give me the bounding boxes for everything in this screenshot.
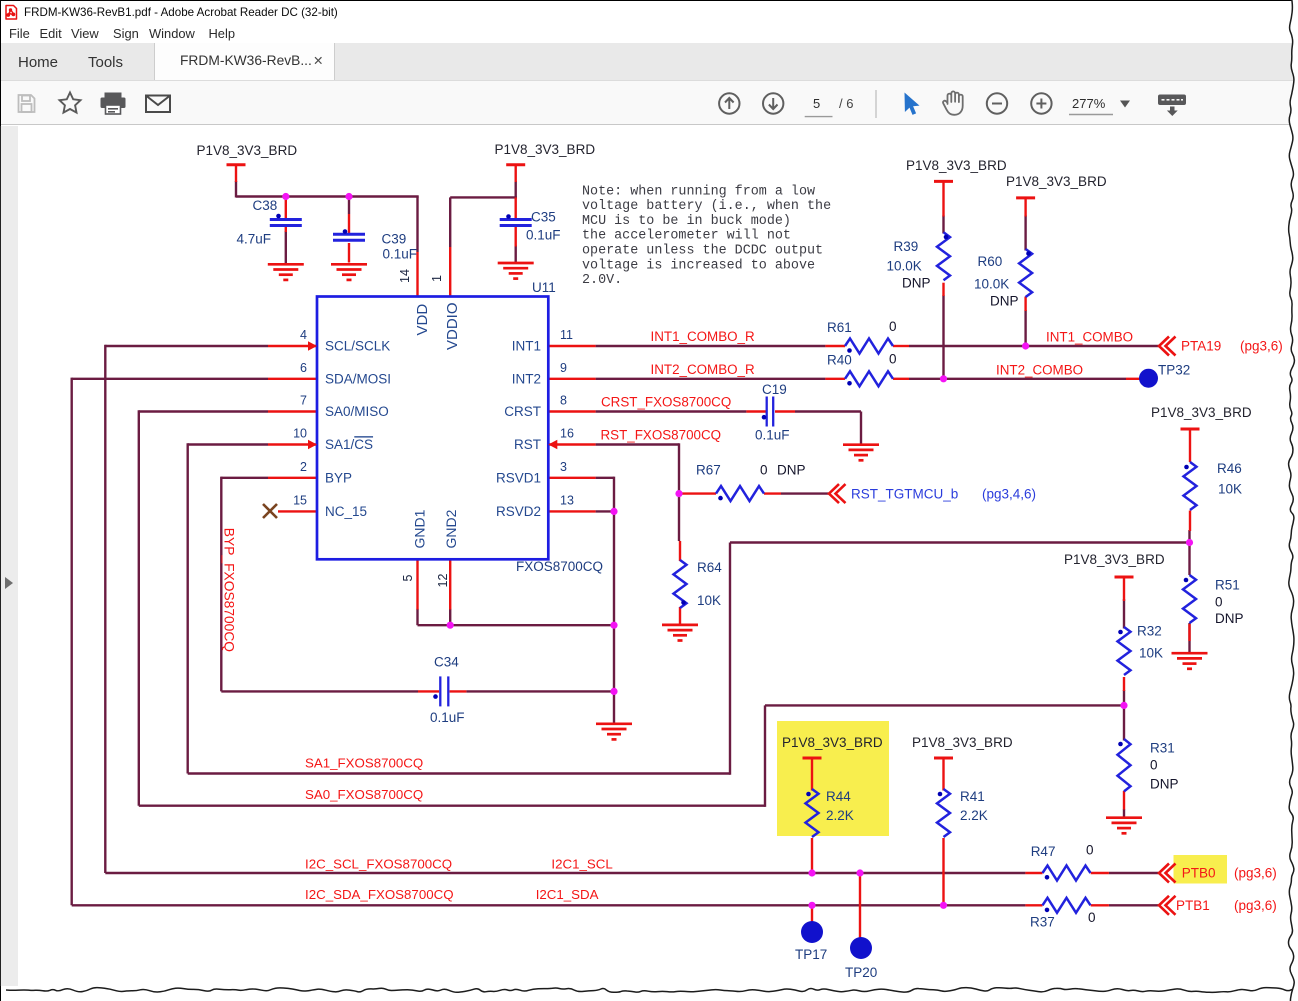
svg-text:2.2K: 2.2K (960, 808, 988, 823)
svg-text:1: 1 (430, 275, 444, 282)
svg-text:R39: R39 (894, 239, 919, 254)
svg-text:DNP: DNP (1215, 611, 1244, 626)
svg-text:0: 0 (1086, 843, 1094, 858)
svg-text:R60: R60 (978, 254, 1003, 269)
svg-text:0: 0 (889, 319, 897, 334)
svg-text:4: 4 (300, 328, 307, 342)
svg-text:P1V8_3V3_BRD: P1V8_3V3_BRD (782, 735, 883, 750)
svg-text:SA1/CS: SA1/CS (325, 437, 373, 452)
svg-text:8: 8 (560, 394, 567, 408)
svg-text:RSVD1: RSVD1 (496, 471, 541, 486)
svg-text:FXOS8700CQ: FXOS8700CQ (516, 559, 603, 574)
svg-text:BYP_FXOS8700CQ: BYP_FXOS8700CQ (222, 528, 237, 653)
svg-text:DNP: DNP (1150, 777, 1179, 792)
svg-text:C38: C38 (253, 198, 278, 213)
svg-text:INT2: INT2 (512, 372, 541, 387)
svg-text:2.0V.: 2.0V. (582, 273, 622, 288)
svg-text:0.1uF: 0.1uF (430, 710, 465, 725)
svg-text:R40: R40 (827, 353, 852, 368)
svg-text:R47: R47 (1031, 844, 1056, 859)
svg-text:TP20: TP20 (845, 965, 877, 980)
svg-text:CRST_FXOS8700CQ: CRST_FXOS8700CQ (601, 395, 731, 410)
svg-text:7: 7 (300, 394, 307, 408)
svg-text:14: 14 (398, 269, 412, 283)
svg-text:RST: RST (514, 437, 541, 452)
svg-text:P1V8_3V3_BRD: P1V8_3V3_BRD (1151, 405, 1252, 420)
svg-text:0.1uF: 0.1uF (526, 228, 561, 243)
svg-text:P1V8_3V3_BRD: P1V8_3V3_BRD (1006, 174, 1107, 189)
svg-text:SA1_FXOS8700CQ: SA1_FXOS8700CQ (305, 755, 423, 770)
svg-text:SA0/MISO: SA0/MISO (325, 404, 389, 419)
svg-text:15: 15 (293, 493, 307, 507)
svg-text:10K: 10K (1139, 646, 1163, 661)
svg-text:C34: C34 (434, 655, 459, 670)
svg-text:INT2_COMBO_R: INT2_COMBO_R (651, 362, 755, 377)
svg-text:C35: C35 (531, 210, 556, 225)
svg-text:2: 2 (300, 460, 307, 474)
svg-text:Note: when running from a low: Note: when running from a low (582, 184, 815, 199)
svg-text:C39: C39 (382, 232, 407, 247)
svg-text:R46: R46 (1217, 461, 1242, 476)
svg-text:C19: C19 (762, 382, 787, 397)
svg-text:SDA/MOSI: SDA/MOSI (325, 372, 391, 387)
svg-text:INT2_COMBO: INT2_COMBO (996, 363, 1083, 378)
svg-text:I2C_SCL_FXOS8700CQ: I2C_SCL_FXOS8700CQ (305, 856, 452, 871)
svg-text:BYP: BYP (325, 471, 352, 486)
svg-text:RST_FXOS8700CQ: RST_FXOS8700CQ (601, 428, 722, 443)
svg-text:0: 0 (1150, 758, 1158, 773)
svg-text:10.0K: 10.0K (887, 259, 922, 274)
svg-text:R64: R64 (697, 560, 722, 575)
svg-text:P1V8_3V3_BRD: P1V8_3V3_BRD (1064, 552, 1165, 567)
svg-text:CRST: CRST (504, 404, 541, 419)
svg-text:0: 0 (1215, 595, 1223, 610)
svg-text:TP32: TP32 (1158, 363, 1190, 378)
svg-text:P1V8_3V3_BRD: P1V8_3V3_BRD (197, 143, 298, 158)
svg-text:P1V8_3V3_BRD: P1V8_3V3_BRD (912, 735, 1013, 750)
svg-text:INT1: INT1 (512, 339, 541, 354)
svg-text:13: 13 (560, 493, 574, 507)
svg-text:PTB0: PTB0 (1182, 866, 1216, 881)
svg-text:0.1uF: 0.1uF (383, 247, 418, 262)
svg-text:DNP: DNP (990, 293, 1019, 308)
svg-text:10K: 10K (1218, 482, 1242, 497)
svg-text:2.2K: 2.2K (826, 808, 854, 823)
svg-text:(pg3,6): (pg3,6) (1240, 339, 1283, 354)
svg-text:6: 6 (300, 361, 307, 375)
svg-text:MCU is to be in buck mode): MCU is to be in buck mode) (582, 214, 791, 229)
svg-text:0: 0 (1088, 910, 1096, 925)
svg-text:0.1uF: 0.1uF (755, 428, 790, 443)
svg-text:VDDIO: VDDIO (444, 302, 461, 350)
svg-text:4.7uF: 4.7uF (237, 232, 272, 247)
svg-text:SCL/SCLK: SCL/SCLK (325, 339, 390, 354)
svg-text:16: 16 (560, 427, 574, 441)
svg-text:10.0K: 10.0K (974, 277, 1009, 292)
svg-text:11: 11 (560, 328, 573, 342)
svg-text:RST_TGTMCU_b: RST_TGTMCU_b (851, 486, 958, 501)
svg-text:PTA19: PTA19 (1181, 339, 1221, 354)
svg-text:U11: U11 (532, 280, 556, 295)
svg-text:5: 5 (401, 575, 415, 582)
svg-text:the accelerometer will not: the accelerometer will not (582, 229, 791, 244)
svg-text:DNP: DNP (777, 463, 806, 478)
svg-text:I2C1_SCL: I2C1_SCL (551, 856, 612, 871)
svg-text:(pg3,4,6): (pg3,4,6) (982, 486, 1036, 501)
svg-text:(pg3,6): (pg3,6) (1234, 866, 1277, 881)
svg-text:R32: R32 (1137, 624, 1162, 639)
svg-text:VDD: VDD (414, 304, 431, 336)
svg-text:R51: R51 (1215, 578, 1240, 593)
svg-text:R37: R37 (1030, 915, 1055, 930)
svg-text:SA0_FXOS8700CQ: SA0_FXOS8700CQ (305, 787, 423, 802)
svg-text:3: 3 (560, 460, 567, 474)
svg-text:12: 12 (436, 574, 450, 588)
svg-text:INT1_COMBO_R: INT1_COMBO_R (651, 329, 755, 344)
svg-text:9: 9 (560, 361, 567, 375)
svg-text:P1V8_3V3_BRD: P1V8_3V3_BRD (906, 158, 1007, 173)
svg-text:INT1_COMBO: INT1_COMBO (1046, 330, 1133, 345)
svg-text:TP17: TP17 (795, 947, 827, 962)
svg-text:GND2: GND2 (443, 509, 459, 548)
svg-text:R44: R44 (826, 789, 851, 804)
svg-text:0: 0 (889, 352, 897, 367)
svg-text:GND1: GND1 (412, 509, 428, 548)
svg-text:10: 10 (293, 427, 307, 441)
svg-text:DNP: DNP (902, 276, 931, 291)
svg-text:NC_15: NC_15 (325, 504, 367, 519)
svg-text:R67: R67 (696, 463, 721, 478)
svg-text:PTB1: PTB1 (1176, 898, 1210, 913)
svg-text:(pg3,6): (pg3,6) (1234, 898, 1277, 913)
svg-text:R41: R41 (960, 789, 985, 804)
svg-text:I2C_SDA_FXOS8700CQ: I2C_SDA_FXOS8700CQ (305, 887, 454, 902)
svg-text:voltage battery (i.e., when th: voltage battery (i.e., when the (582, 199, 831, 214)
svg-text:R31: R31 (1150, 741, 1175, 756)
svg-text:operate unless the DCDC output: operate unless the DCDC output (582, 244, 823, 259)
svg-text:voltage is increased to above: voltage is increased to above (582, 258, 815, 273)
svg-text:RSVD2: RSVD2 (496, 504, 541, 519)
svg-text:10K: 10K (697, 593, 721, 608)
svg-text:R61: R61 (827, 320, 852, 335)
svg-text:I2C1_SDA: I2C1_SDA (536, 887, 599, 902)
svg-text:0: 0 (760, 463, 768, 478)
svg-text:P1V8_3V3_BRD: P1V8_3V3_BRD (495, 142, 596, 157)
